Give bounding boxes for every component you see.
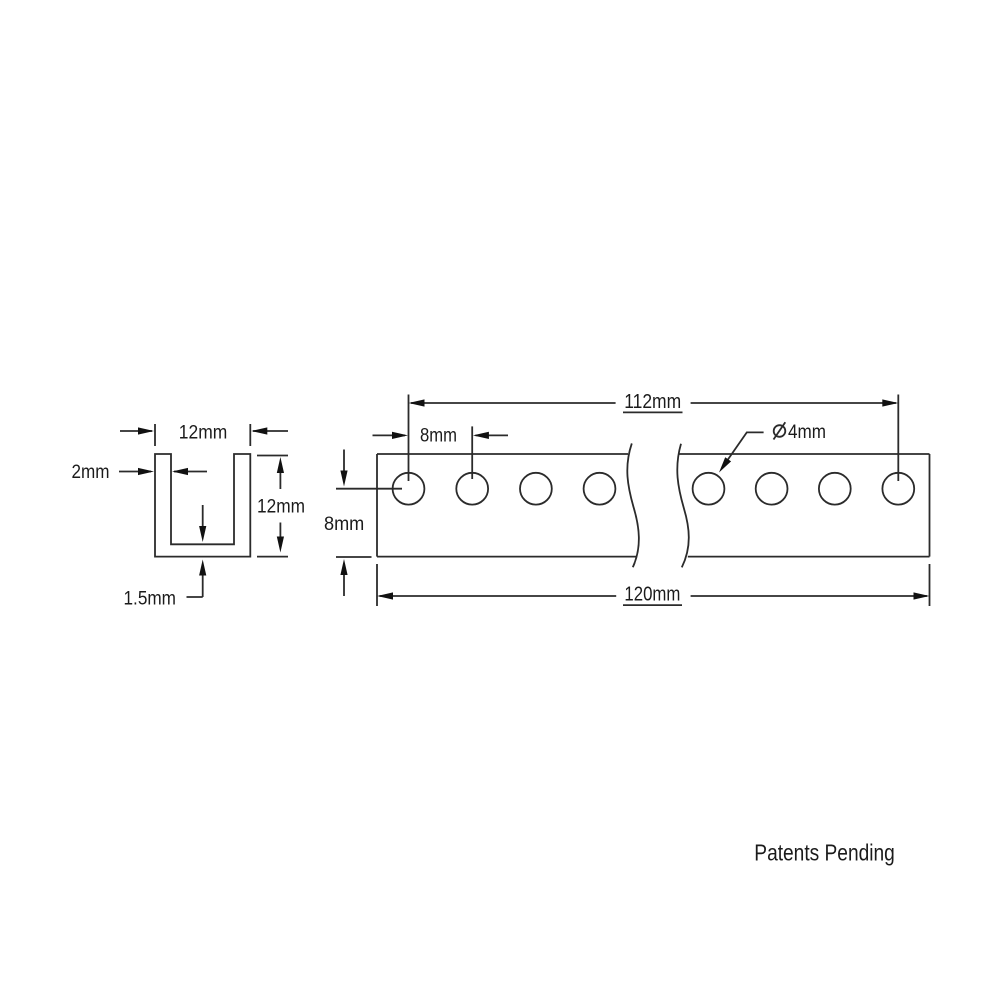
hole 1 bbox=[393, 473, 425, 505]
hole centerline horizontal bbox=[336, 488, 402, 490]
dimension 12mm top extension line left bbox=[154, 424, 156, 446]
dimension 8mm top left arrow bbox=[373, 432, 409, 439]
svg-text:120mm: 120mm bbox=[624, 583, 680, 605]
channel bar top edge left segment bbox=[377, 453, 628, 455]
break line left bbox=[627, 443, 639, 567]
hole 2 bbox=[456, 473, 488, 505]
hole 8 bbox=[882, 473, 914, 505]
dimension 2mm inner arrow bbox=[172, 468, 207, 475]
break line right bbox=[677, 444, 689, 568]
dimension 1.5mm upper arrow bbox=[199, 505, 206, 542]
dimension 1.5mm leader line bbox=[187, 596, 203, 598]
dimension 8mm left down arrow bbox=[340, 450, 347, 487]
hole 5 bbox=[693, 473, 725, 505]
svg-text:4mm: 4mm bbox=[788, 422, 826, 443]
svg-text:2mm: 2mm bbox=[72, 462, 110, 483]
channel bar top edge right segment bbox=[678, 453, 929, 455]
dimension 112mm extension line right bbox=[897, 395, 899, 482]
dimension 120mm label underline bbox=[623, 604, 682, 606]
channel bar left edge bbox=[376, 454, 378, 557]
dimension 112mm line left segment bbox=[409, 399, 616, 406]
dimension 8mm left up arrow bbox=[340, 559, 347, 596]
dimension 12mm right extension line top bbox=[257, 455, 288, 457]
svg-text:12mm: 12mm bbox=[257, 497, 305, 518]
dimension 12mm top right arrow bbox=[251, 427, 288, 434]
dimension 112mm line right segment bbox=[691, 399, 899, 406]
svg-text:112mm: 112mm bbox=[624, 391, 681, 413]
diameter 4mm leader arrowhead bbox=[719, 457, 731, 472]
svg-text:Patents Pending: Patents Pending bbox=[754, 840, 895, 866]
diameter 4mm symbol bbox=[774, 422, 786, 439]
dimension 8mm top extension line bbox=[471, 426, 473, 479]
svg-text:8mm: 8mm bbox=[324, 514, 364, 535]
dimension 112mm extension line left bbox=[408, 395, 410, 482]
svg-text:1.5mm: 1.5mm bbox=[124, 588, 177, 609]
dimension 120mm extension line left bbox=[376, 564, 378, 606]
dimension 8mm top right arrow bbox=[473, 432, 508, 439]
channel bar bottom edge right segment bbox=[688, 556, 930, 558]
svg-text:12mm: 12mm bbox=[179, 422, 228, 443]
diameter 4mm leader bbox=[722, 432, 764, 468]
dimension 120mm line right segment bbox=[691, 592, 930, 599]
dimension 120mm line left segment bbox=[377, 592, 616, 599]
dimension 2mm leader arrow bbox=[119, 468, 154, 475]
channel bar bottom edge left segment bbox=[377, 556, 637, 558]
dimension 12mm right lower arrow bbox=[277, 523, 284, 553]
dimension 12mm right upper arrow bbox=[277, 457, 284, 489]
bottom reference line left bbox=[336, 556, 372, 558]
channel bar right edge bbox=[929, 454, 931, 557]
hole 4 bbox=[584, 473, 616, 505]
hole 7 bbox=[819, 473, 851, 505]
U-channel cross-section outline bbox=[155, 454, 250, 557]
hole 3 bbox=[520, 473, 552, 505]
dimension 1.5mm lower arrow bbox=[199, 560, 206, 598]
dimension 120mm extension line right bbox=[929, 564, 931, 606]
dimension 12mm top extension line right bbox=[249, 424, 251, 446]
dimension 12mm top left arrow bbox=[120, 427, 154, 434]
hole 6 bbox=[756, 473, 788, 505]
dimension 112mm label underline bbox=[623, 411, 683, 413]
dimension 12mm right extension line bottom bbox=[257, 556, 288, 558]
svg-text:8mm: 8mm bbox=[420, 426, 457, 447]
